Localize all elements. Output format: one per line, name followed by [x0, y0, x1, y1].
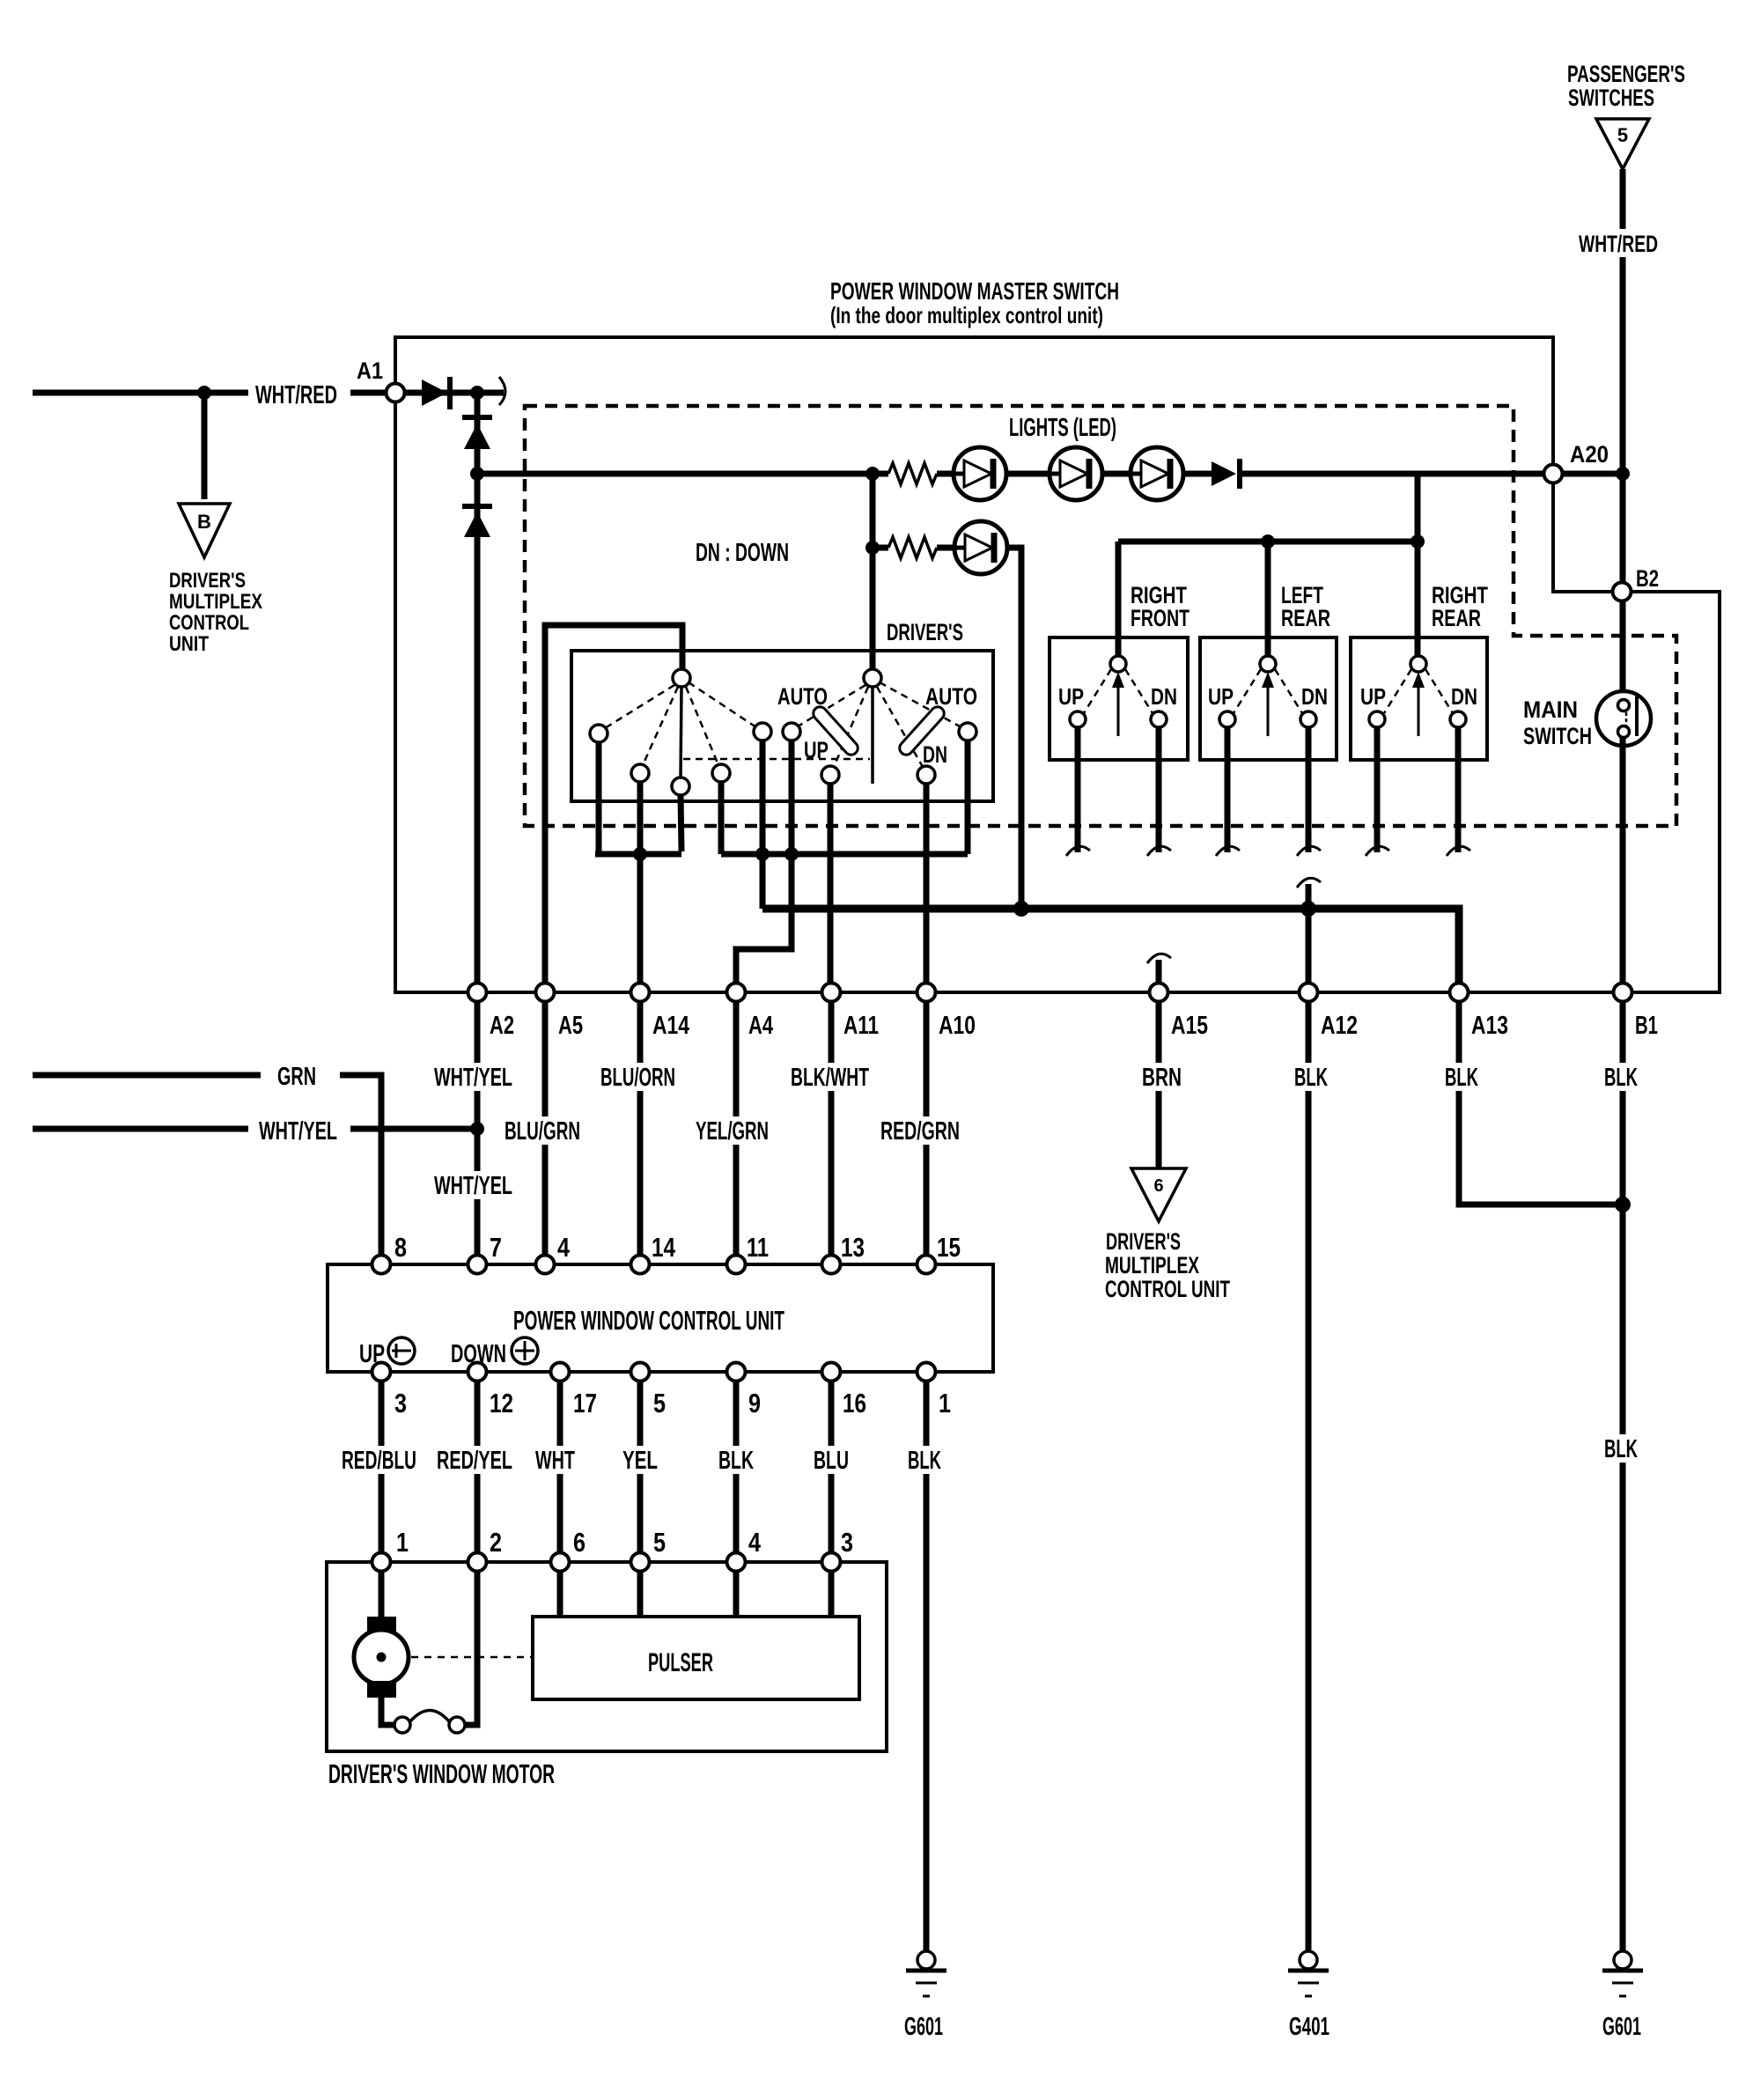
svg-text:RED/BLU: RED/BLU	[342, 1447, 416, 1475]
svg-text:(In the door multiplex control: (In the door multiplex control unit)	[830, 302, 1103, 328]
pivot	[1411, 656, 1426, 672]
wire color label WHT/YEL lower	[430, 1171, 518, 1200]
svg-text:8: 8	[394, 1232, 407, 1263]
svg-text:4: 4	[748, 1527, 762, 1558]
connector triangle B	[179, 504, 230, 557]
dashed unit boundary box	[525, 406, 1676, 826]
motor M1	[379, 1571, 385, 1620]
contact DN	[1450, 711, 1466, 727]
label BLK above right ground	[1600, 1434, 1642, 1463]
node junction row1 feed	[470, 467, 484, 481]
svg-text:PULSER: PULSER	[648, 1648, 713, 1677]
right rear switch box	[1351, 637, 1487, 760]
svg-text:CONTROL UNIT: CONTROL UNIT	[1105, 1276, 1230, 1302]
svg-text:WHT/YEL: WHT/YEL	[434, 1064, 512, 1092]
wire down to right-front pivot	[1116, 542, 1122, 657]
wire DN down	[1306, 727, 1312, 852]
splice hook	[499, 377, 505, 405]
wire UP contact down to ground bus	[760, 741, 766, 909]
wire WHT/RED passenger vertical	[1620, 169, 1626, 470]
svg-text:DN : DOWN: DN : DOWN	[696, 539, 789, 567]
wire WHT/RED input (left)	[33, 390, 248, 396]
connector triangle 5	[1596, 119, 1649, 169]
svg-text:BLK: BLK	[1604, 1064, 1638, 1092]
wire color labels row 2	[500, 1116, 585, 1146]
svg-text:BLU/GRN: BLU/GRN	[505, 1117, 580, 1146]
contact UP	[1070, 711, 1086, 727]
wire GRN input	[33, 1072, 261, 1079]
svg-text:1: 1	[396, 1527, 409, 1558]
wire A5 below pin	[542, 1001, 549, 1256]
wire pin17 to motor 6	[557, 1381, 563, 1553]
svg-text:DN: DN	[923, 741, 947, 768]
svg-text:UP: UP	[1058, 683, 1084, 710]
svg-text:BRN: BRN	[1142, 1064, 1182, 1092]
wire down to right-rear pivot	[1415, 542, 1421, 657]
switch pivot (driver right)	[864, 669, 881, 687]
svg-text:POWER WINDOW CONTROL UNIT: POWER WINDOW CONTROL UNIT	[513, 1305, 784, 1336]
connector pins on master switch bottom edge	[468, 984, 487, 1002]
svg-text:REAR: REAR	[1432, 605, 1481, 631]
node junction ground bus/A12	[1300, 901, 1316, 917]
right front switch box	[1050, 637, 1188, 760]
contact DN	[1300, 711, 1316, 727]
wire pin5 to motor 5	[637, 1381, 644, 1553]
svg-text:DN: DN	[1451, 683, 1477, 710]
wire LED row 1	[477, 471, 888, 477]
svg-text:BLK: BLK	[1445, 1064, 1478, 1092]
LED 4	[954, 521, 1007, 574]
svg-text:A15: A15	[1171, 1012, 1208, 1040]
driver's window motor box	[327, 1562, 887, 1751]
wire color labels row 1	[430, 1063, 518, 1092]
svg-text:14: 14	[652, 1232, 676, 1263]
svg-text:12: 12	[490, 1388, 513, 1418]
svg-text:PASSENGER'S: PASSENGER'S	[1567, 61, 1685, 87]
wire WHT/YEL input	[33, 1126, 248, 1132]
contact DN	[1151, 711, 1167, 727]
svg-text:DN: DN	[1151, 683, 1177, 710]
wire A12 to ground G401	[1306, 1001, 1312, 1951]
svg-text:MULTIPLEX: MULTIPLEX	[1105, 1252, 1199, 1278]
wire row2 return down	[1007, 548, 1021, 909]
svg-text:11: 11	[747, 1232, 769, 1263]
wire contact1 down	[596, 742, 602, 854]
wire B1 to ground G601	[1620, 1001, 1626, 1951]
motor wire color labels	[337, 1446, 421, 1475]
svg-text:7: 7	[490, 1232, 502, 1263]
dashed fan	[1234, 669, 1261, 713]
pulser box	[533, 1617, 859, 1699]
svg-text:A5: A5	[558, 1012, 583, 1040]
arm arrow	[1267, 676, 1270, 736]
switch pivot (driver left)	[673, 669, 690, 687]
svg-text:B2: B2	[1636, 565, 1659, 592]
svg-text:DRIVER'S: DRIVER'S	[1106, 1228, 1181, 1255]
node junction row1/row2	[865, 467, 880, 481]
svg-text:DN: DN	[1301, 683, 1328, 710]
wire LED row 2 feed	[870, 474, 876, 669]
node junction ground bus/row2	[1013, 901, 1029, 917]
wire A11	[828, 784, 834, 984]
svg-text:A2: A2	[490, 1012, 514, 1040]
svg-text:YEL: YEL	[622, 1447, 658, 1475]
arm arrow	[1418, 676, 1420, 736]
wire pin12 to motor 2	[475, 1381, 481, 1553]
svg-text:MAIN: MAIN	[1523, 696, 1578, 723]
ground G601 (left)	[917, 1951, 935, 1969]
ground G601 (right)	[1614, 1951, 1631, 1969]
svg-text:A1: A1	[357, 357, 383, 384]
resistor R2	[888, 537, 937, 558]
wire contact4 down to bus2	[718, 782, 725, 854]
diode D1	[422, 379, 447, 406]
svg-text:A10: A10	[939, 1012, 976, 1040]
svg-text:B: B	[197, 511, 211, 533]
svg-text:15: 15	[937, 1232, 961, 1263]
LED 3	[1131, 447, 1183, 500]
svg-text:A4: A4	[748, 1012, 773, 1040]
wire B2 to main switch	[1620, 601, 1626, 700]
svg-text:DRIVER'S: DRIVER'S	[169, 569, 246, 593]
wire A4 below pin	[733, 1001, 740, 1256]
contact UP	[1369, 711, 1385, 727]
svg-text:GRN: GRN	[277, 1063, 316, 1091]
svg-text:A12: A12	[1321, 1012, 1358, 1040]
wire A11 below pin	[829, 1001, 835, 1256]
node junction bus2/A4	[784, 847, 799, 861]
svg-text:BLK: BLK	[1294, 1064, 1328, 1092]
svg-text:3: 3	[394, 1388, 407, 1418]
contact UP	[1219, 711, 1235, 727]
svg-text:BLU/ORN: BLU/ORN	[600, 1064, 675, 1092]
svg-text:G601: G601	[1602, 2013, 1641, 2041]
main switch	[1596, 691, 1651, 746]
dashed horizontal guide	[683, 758, 870, 761]
wires into pulser	[557, 1571, 563, 1617]
wire A10	[924, 784, 930, 984]
svg-text:9: 9	[748, 1388, 761, 1418]
svg-text:5: 5	[1617, 124, 1628, 146]
connector A20	[1544, 465, 1563, 483]
wire feed bus to passenger switches	[1415, 474, 1421, 542]
wire UP down	[1374, 727, 1381, 852]
wire pin16 to motor 3	[829, 1381, 835, 1553]
svg-text:A13: A13	[1471, 1012, 1508, 1040]
switch knob AUTO-UP	[811, 704, 861, 758]
node junction row1/passenger wire	[1616, 467, 1630, 481]
svg-text:DRIVER'S: DRIVER'S	[887, 619, 963, 645]
wire UP down	[1225, 727, 1231, 852]
svg-text:5: 5	[653, 1388, 666, 1418]
wire contact to A4 jog	[736, 741, 792, 984]
svg-text:UP: UP	[1208, 683, 1234, 710]
left rear switch box	[1200, 637, 1337, 760]
switch knob AUTO-DN	[897, 704, 947, 758]
diode D2	[462, 415, 492, 420]
node junction on WHT/RED input	[197, 386, 211, 400]
dashed fan (driver right)	[798, 685, 865, 726]
wire main switch to B1	[1620, 738, 1626, 984]
svg-text:13: 13	[841, 1232, 865, 1263]
svg-text:1: 1	[939, 1388, 951, 1418]
svg-text:BLK: BLK	[908, 1447, 941, 1475]
wire A1 to diode	[404, 390, 504, 396]
svg-text:UNIT: UNIT	[169, 632, 209, 656]
LED 1	[954, 447, 1006, 500]
svg-text:MULTIPLEX: MULTIPLEX	[169, 590, 262, 614]
wire A10 below pin	[924, 1001, 930, 1256]
wire DN down	[1455, 727, 1462, 852]
svg-text:A20: A20	[1570, 441, 1609, 468]
svg-text:SWITCHES: SWITCHES	[1568, 85, 1654, 111]
control unit bottom pins	[372, 1363, 391, 1382]
wire A13 below pin jog to B1 wire	[1459, 1001, 1623, 1205]
svg-text:POWER WINDOW MASTER SWITCH: POWER WINDOW MASTER SWITCH	[830, 277, 1119, 305]
svg-text:DRIVER'S WINDOW MOTOR: DRIVER'S WINDOW MOTOR	[328, 1758, 555, 1789]
svg-text:3: 3	[841, 1527, 853, 1558]
driver's switch box	[571, 651, 993, 801]
svg-text:A11: A11	[843, 1012, 879, 1040]
wire A12 junction to pin	[1306, 909, 1312, 984]
wire ground bus	[762, 909, 1459, 984]
svg-text:WHT/YEL: WHT/YEL	[259, 1117, 337, 1146]
pivot stem	[871, 687, 874, 784]
wire contact right-up down to bus2	[965, 741, 971, 854]
wire A2 below pin	[475, 1001, 481, 1256]
svg-text:FRONT: FRONT	[1131, 605, 1190, 631]
wire pin1 to ground G601	[924, 1381, 930, 1951]
pivot stem	[681, 687, 681, 777]
svg-text:RED/GRN: RED/GRN	[880, 1117, 960, 1146]
svg-text:BLK: BLK	[1604, 1435, 1638, 1463]
power window master switch box	[395, 337, 1720, 992]
connector B2	[1613, 583, 1631, 601]
svg-text:BLU: BLU	[814, 1447, 849, 1475]
node junction bus2	[755, 847, 770, 861]
dashed fan	[1084, 669, 1111, 713]
wire LED row 2	[873, 545, 888, 551]
svg-text:G401: G401	[1289, 2013, 1329, 2041]
svg-text:B1: B1	[1635, 1012, 1658, 1040]
svg-text:A14: A14	[652, 1012, 689, 1040]
connector triangle 6	[1131, 1168, 1186, 1221]
wire DN down	[1156, 727, 1162, 852]
svg-text:AUTO: AUTO	[925, 683, 977, 710]
wire pin3 to motor 1	[379, 1381, 385, 1553]
svg-text:LIGHTS (LED): LIGHTS (LED)	[1009, 414, 1116, 442]
diode D3	[462, 504, 492, 509]
dashed link motor to pulser	[411, 1656, 531, 1659]
node junction bus1/A14	[633, 847, 647, 861]
svg-text:17: 17	[573, 1388, 597, 1418]
commutator brush wires	[381, 1696, 394, 1725]
svg-text:UP: UP	[1360, 683, 1386, 710]
node junction WHT/YEL/A2	[470, 1122, 484, 1136]
svg-text:WHT: WHT	[535, 1447, 575, 1475]
svg-text:YEL/GRN: YEL/GRN	[696, 1117, 769, 1146]
LED 2	[1050, 447, 1102, 500]
svg-text:G601: G601	[904, 2013, 943, 2041]
control unit top pins	[372, 1256, 391, 1274]
wire bus2	[721, 851, 968, 858]
connector A1	[387, 384, 405, 402]
contact circles (driver right)	[783, 723, 800, 741]
svg-text:5: 5	[653, 1527, 666, 1558]
svg-text:RED/YEL: RED/YEL	[437, 1447, 512, 1475]
wire contact3 down	[681, 795, 681, 851]
hook stub above A15 pin	[1156, 960, 1162, 984]
contact circles (driver left)	[590, 725, 608, 742]
svg-text:SWITCH: SWITCH	[1523, 723, 1592, 749]
svg-text:16: 16	[843, 1388, 866, 1418]
svg-text:WHT/RED: WHT/RED	[1579, 231, 1658, 257]
resistor R1	[888, 463, 937, 484]
motor box pins	[372, 1553, 391, 1572]
svg-text:AUTO: AUTO	[777, 683, 828, 710]
svg-text:UP: UP	[804, 737, 829, 763]
svg-text:CONTROL: CONTROL	[169, 611, 249, 635]
power window control unit box	[328, 1264, 993, 1372]
svg-text:6: 6	[573, 1527, 586, 1558]
arm arrow	[1117, 676, 1120, 736]
wire to triangle B	[202, 393, 208, 499]
svg-text:WHT/YEL: WHT/YEL	[434, 1172, 512, 1200]
svg-text:4: 4	[557, 1232, 571, 1263]
diode D4	[1212, 461, 1236, 486]
node junction A13/B1	[1615, 1197, 1631, 1212]
pivot	[1260, 656, 1276, 672]
wire A5 feed to left pivot	[545, 625, 682, 987]
wire UP down	[1075, 727, 1081, 852]
wire A14 below pin	[637, 1001, 644, 1256]
svg-text:6: 6	[1153, 1176, 1163, 1196]
svg-text:WHT/RED: WHT/RED	[255, 381, 337, 409]
svg-text:BLK/WHT: BLK/WHT	[791, 1064, 869, 1092]
wire pin9 to motor 4	[733, 1381, 740, 1553]
node junction A2/D1	[470, 386, 484, 400]
wire A14	[637, 782, 644, 984]
svg-text:REAR: REAR	[1281, 605, 1330, 631]
ground G401	[1300, 1951, 1317, 1969]
dashed fan	[1384, 669, 1411, 713]
wire A2 vertical (diode chain)	[475, 393, 481, 984]
pivot	[1110, 656, 1126, 672]
svg-text:2: 2	[490, 1527, 502, 1558]
wire bus1	[595, 851, 681, 858]
dashed fan (driver left)	[605, 685, 674, 728]
wire down to left-rear pivot	[1265, 542, 1271, 657]
hook stub above A12 junction	[1306, 884, 1312, 909]
wire A15 to triangle 6	[1156, 1001, 1162, 1171]
svg-text:BLK: BLK	[718, 1447, 754, 1475]
